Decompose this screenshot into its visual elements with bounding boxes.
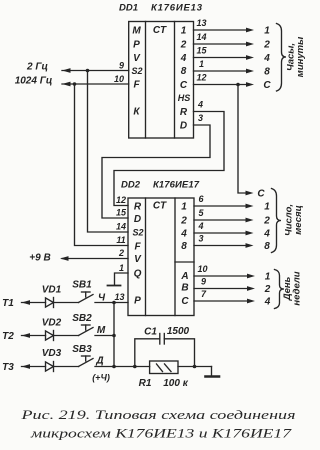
svg-text:CT: CT	[153, 25, 167, 36]
svg-text:15: 15	[116, 208, 127, 218]
DD2 left column divider	[145, 198, 147, 316]
svg-text:(+Ч): (+Ч)	[92, 373, 110, 383]
svg-text:1: 1	[119, 263, 124, 273]
svg-text:1: 1	[264, 202, 270, 213]
junction node row2	[112, 334, 116, 338]
junction node C1 left	[133, 365, 137, 369]
svg-text:D: D	[134, 214, 141, 225]
svg-text:S2: S2	[132, 228, 143, 238]
svg-text:CT: CT	[153, 201, 167, 212]
svg-text:4: 4	[263, 229, 270, 240]
ground symbol	[211, 367, 213, 376]
svg-text:C: C	[180, 80, 188, 91]
wire DD2 output 2 pin5	[194, 219, 247, 221]
svg-text:месяц: месяц	[293, 205, 304, 234]
wire DD2 output 4 pin4	[194, 232, 247, 234]
wire 2Hz to S2 DD2 vertical	[88, 71, 129, 233]
wire 1024Hz to F DD2 vertical	[75, 84, 129, 246]
svg-text:8: 8	[264, 67, 270, 78]
wire DD2 output 8 pin3	[194, 245, 247, 247]
svg-text:100 к: 100 к	[163, 378, 188, 389]
svg-text:C: C	[181, 296, 189, 307]
diode VD3	[46, 362, 54, 371]
pushbutton SB3	[79, 359, 94, 367]
arrowhead C lower	[246, 191, 254, 196]
arrowhead +9V	[60, 256, 69, 261]
wire C branch down to second C arrow	[238, 85, 247, 194]
wire T3 row	[22, 366, 46, 368]
arrowhead T1	[22, 300, 31, 305]
svg-text:1: 1	[265, 272, 271, 283]
brace date-month	[272, 189, 282, 253]
wire DD1 D pin3 to DD2 D pin15	[102, 125, 210, 218]
arrowhead T2	[22, 333, 31, 338]
svg-text:R1: R1	[139, 378, 152, 389]
wire +9V to V pin2 DD2	[62, 258, 128, 260]
wire SB2 to junction	[95, 335, 114, 337]
svg-text:SB3: SB3	[72, 344, 92, 355]
svg-text:микросхем К176ИЕ13 и К176ИЕ17: микросхем К176ИЕ13 и К176ИЕ17	[30, 426, 292, 441]
svg-text:SB1: SB1	[72, 280, 92, 291]
svg-text:B: B	[181, 283, 188, 294]
brace weekday	[275, 270, 285, 309]
svg-text:12: 12	[196, 73, 206, 83]
svg-text:М: М	[97, 325, 106, 336]
junction node row3	[112, 365, 116, 369]
svg-text:1: 1	[199, 59, 204, 69]
wire Q pin1 DD2 to open contact	[115, 273, 129, 285]
svg-text:Т1: Т1	[2, 298, 14, 309]
svg-text:8: 8	[264, 241, 270, 252]
svg-text:недели: недели	[292, 271, 303, 305]
wire SB3 row to R1	[95, 366, 150, 368]
svg-text:SB2: SB2	[72, 313, 92, 324]
wire DD1 R pin4 to DD2 R pin12	[114, 112, 224, 206]
svg-text:4: 4	[263, 53, 270, 64]
svg-text:5: 5	[198, 208, 204, 218]
junction node on pin9 line	[86, 69, 90, 73]
junction node row1	[112, 301, 116, 305]
svg-text:2: 2	[263, 40, 270, 51]
wire T2 row	[22, 335, 46, 337]
wire R1 to ground	[178, 366, 212, 368]
svg-text:Q: Q	[134, 269, 142, 280]
svg-text:2: 2	[264, 284, 271, 295]
pushbutton SB1	[79, 295, 94, 303]
svg-text:2: 2	[118, 248, 124, 258]
resistor R1 box	[150, 361, 178, 374]
svg-text:DD1: DD1	[119, 3, 138, 14]
svg-text:3: 3	[198, 113, 203, 123]
svg-text:9: 9	[201, 277, 206, 287]
arrowhead 2Hz	[62, 68, 71, 73]
arrowhead 1024Hz	[62, 82, 71, 87]
svg-text:Рис. 219. Типовая схема соедин: Рис. 219. Типовая схема соединения	[20, 407, 295, 422]
diode VD2	[46, 331, 54, 340]
svg-text:8: 8	[181, 241, 187, 252]
svg-text:2: 2	[180, 40, 187, 51]
pushbutton SB2	[79, 328, 94, 336]
diode VD1	[46, 298, 54, 307]
svg-text:8: 8	[181, 66, 187, 77]
svg-text:1500: 1500	[167, 326, 190, 337]
svg-text:С1: С1	[144, 327, 157, 338]
svg-text:1: 1	[264, 26, 270, 37]
arrowheads DD2 outputs	[246, 204, 254, 209]
svg-text:S2: S2	[131, 66, 142, 76]
wire DD2 output 1 pin6	[194, 205, 247, 207]
svg-text:R: R	[134, 202, 142, 213]
wire DD1 output 8 pin1	[194, 70, 248, 72]
wire DD2 output C pin7	[194, 300, 248, 302]
svg-text:11: 11	[116, 235, 125, 245]
svg-text:VD2: VD2	[42, 318, 62, 329]
svg-text:15: 15	[196, 46, 207, 56]
svg-text:7: 7	[201, 289, 207, 299]
junction node on C line	[236, 83, 240, 87]
svg-text:4: 4	[180, 53, 187, 64]
svg-text:С: С	[263, 80, 271, 91]
svg-text:Д: Д	[95, 356, 103, 367]
svg-text:К176ИЕ13: К176ИЕ13	[151, 3, 203, 14]
svg-text:Р: Р	[133, 40, 140, 51]
svg-text:VD3: VD3	[42, 348, 62, 359]
wire bus vertical connecting switch rows	[113, 303, 115, 367]
svg-text:P: P	[134, 296, 141, 307]
arrowhead T3	[22, 364, 31, 369]
svg-text:1: 1	[181, 26, 187, 37]
svg-text:4: 4	[197, 221, 203, 231]
svg-text:13: 13	[196, 18, 206, 28]
svg-text:R: R	[180, 107, 188, 118]
svg-text:10: 10	[197, 264, 207, 274]
capacitor C1 branch	[135, 339, 160, 367]
wire DD1 output C pin12	[194, 84, 248, 86]
junction node C1 right	[193, 365, 197, 369]
IC DD2 K176IE17 outer box	[128, 198, 194, 316]
svg-text:F: F	[133, 80, 140, 91]
svg-text:4: 4	[197, 100, 203, 110]
wire DD2 output A pin10	[194, 275, 248, 277]
svg-text:14: 14	[116, 222, 126, 232]
svg-text:4: 4	[180, 229, 187, 240]
svg-text:минуты: минуты	[295, 37, 306, 77]
wire DD1 output 2 pin14	[194, 43, 248, 45]
svg-text:A: A	[180, 271, 188, 282]
wire pin10 F DD1 from 1024Hz input	[62, 83, 129, 85]
svg-text:D: D	[180, 121, 187, 132]
wire DD2 output B pin9	[194, 288, 248, 290]
wire P pin13 DD2 row	[95, 302, 128, 304]
wire T1 row	[22, 302, 46, 304]
svg-text:К: К	[133, 107, 140, 118]
DD2 right column divider	[174, 198, 176, 316]
svg-text:14: 14	[196, 32, 206, 42]
DD1 right column divider	[174, 22, 176, 139]
wire pin9 S2 DD1 from 2Hz input	[62, 70, 129, 72]
IC DD1 K176IE13 outer box	[129, 22, 194, 139]
svg-text:V: V	[134, 254, 142, 265]
junction node on pin10 line	[73, 82, 77, 86]
wire DD1 output 1 pin13	[194, 29, 248, 31]
svg-text:2: 2	[263, 216, 270, 227]
svg-text:DD2: DD2	[121, 180, 141, 191]
svg-text:+9 В: +9 В	[29, 253, 50, 264]
svg-text:6: 6	[198, 194, 204, 204]
svg-text:3: 3	[198, 234, 203, 244]
open contact bar at Q pin1	[108, 285, 121, 287]
svg-text:Ч: Ч	[98, 293, 106, 304]
DD1 left column divider	[145, 22, 147, 139]
wire DD1 output 4 pin15	[194, 57, 248, 59]
arrowheads DD1 outputs	[246, 28, 254, 33]
brace hours-minutes	[277, 24, 287, 92]
svg-text:К176ИЕ17: К176ИЕ17	[153, 180, 200, 191]
svg-text:С: С	[257, 189, 265, 200]
svg-text:9: 9	[119, 61, 124, 71]
svg-text:М: М	[132, 26, 141, 37]
svg-text:HS: HS	[178, 93, 191, 103]
svg-text:4: 4	[264, 297, 271, 308]
DD2 right column section divider	[175, 261, 194, 263]
svg-text:F: F	[134, 242, 141, 253]
svg-text:1: 1	[181, 202, 187, 213]
svg-text:13: 13	[114, 292, 124, 302]
svg-text:1024 Гц: 1024 Гц	[15, 76, 53, 87]
svg-text:2: 2	[180, 216, 187, 227]
svg-text:12: 12	[116, 195, 126, 205]
svg-text:2 Гц: 2 Гц	[26, 62, 48, 73]
svg-text:Т3: Т3	[2, 362, 14, 373]
svg-text:V: V	[133, 53, 141, 64]
svg-text:VD1: VD1	[42, 285, 62, 296]
svg-text:10: 10	[114, 74, 124, 84]
svg-text:Т2: Т2	[2, 331, 14, 342]
